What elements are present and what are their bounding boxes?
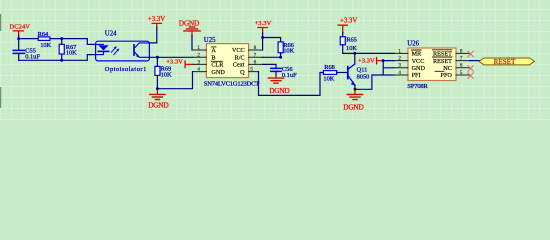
no-connect X pin6	[468, 66, 474, 72]
ground DGND above U25 pin1	[179, 18, 200, 36]
U26 chip body	[407, 40, 456, 89]
svg-text:NC: NC	[443, 65, 452, 72]
svg-text:SP708R: SP708R	[407, 83, 428, 90]
wire U25 Q pin5 to R68	[259, 72, 324, 96]
power port +3.3V above R65	[338, 18, 357, 33]
svg-text:PFO: PFO	[441, 72, 453, 79]
wire R65 to U26 MR pin1	[343, 52, 394, 54]
svg-text:1: 1	[398, 48, 401, 54]
svg-text:R/C: R/C	[235, 55, 245, 62]
svg-text:Q: Q	[240, 69, 245, 76]
svg-text:8: 8	[254, 45, 257, 51]
resistor R69	[155, 57, 172, 88]
LED emission arrows	[111, 46, 119, 54]
svg-text:MR: MR	[412, 51, 423, 58]
svg-text:5: 5	[460, 70, 463, 76]
ground DGND below C56	[268, 76, 290, 95]
resistor R67	[59, 39, 77, 61]
U25 chip body	[204, 37, 259, 87]
svg-text:10K: 10K	[283, 48, 294, 55]
svg-text:U25: U25	[204, 37, 216, 44]
U25 pin numbers	[197, 45, 256, 73]
U26 pin stubs left	[394, 53, 408, 75]
svg-text:GND: GND	[211, 69, 225, 76]
svg-text:10K: 10K	[346, 45, 357, 52]
svg-text:DGND: DGND	[179, 18, 200, 27]
svg-text:8050: 8050	[357, 73, 370, 80]
svg-text:10K: 10K	[66, 50, 77, 57]
resistor R64	[38, 31, 52, 49]
LED inside U24	[96, 44, 109, 54]
svg-text:6: 6	[460, 63, 463, 69]
svg-text:6: 6	[254, 59, 257, 65]
svg-text:PFI: PFI	[412, 72, 421, 79]
svg-text:DGND: DGND	[343, 102, 364, 111]
svg-text:R64: R64	[38, 31, 49, 38]
svg-text:+3.3V: +3.3V	[166, 58, 183, 65]
power port +3.3V at U25 VCC	[255, 20, 272, 33]
op-amp U24 optoisolator box	[96, 30, 150, 72]
svg-text:RESET: RESET	[433, 58, 452, 65]
resistor R65	[340, 37, 357, 54]
wire DC24V stem to node	[18, 36, 20, 39]
power port +3.3V opto collector	[148, 16, 165, 28]
sheet border fragment left edge	[0, 14, 1, 31]
svg-text:U26: U26	[407, 40, 419, 47]
svg-text:5: 5	[250, 67, 253, 73]
wire +3.3V down to opto collector	[149, 28, 156, 43]
svg-text:R68: R68	[324, 64, 335, 71]
svg-text:7: 7	[254, 52, 257, 58]
transistor Q2 Q11	[348, 64, 370, 86]
node junction pin7/R66	[279, 56, 282, 59]
background grid	[0, 0, 550, 121]
power port +3.3V at U26 VCC	[358, 58, 383, 65]
node junction VCC rail	[261, 36, 264, 39]
node junction collector riser	[353, 52, 356, 55]
svg-text:7: 7	[460, 56, 463, 62]
wire U25 Cext pin6 to C56	[263, 64, 276, 68]
power port DC24V	[10, 24, 31, 36]
U25 pin stubs left	[193, 50, 207, 72]
svg-text:4: 4	[398, 70, 401, 76]
node junction emitter/GND	[354, 88, 357, 91]
node junction R69/GND pin4	[156, 87, 159, 90]
svg-text:2: 2	[197, 52, 200, 58]
ground DGND below Q11	[343, 89, 364, 111]
node junction emitter/R69	[156, 56, 159, 59]
wire bottom rail C55 to R67 to opto cathode	[19, 55, 96, 61]
svg-text:VCC: VCC	[412, 58, 425, 65]
wire U25 R/C pin7 to R66 bottom	[263, 56, 281, 58]
wire +3.3V to R65	[342, 33, 344, 37]
wire U25 GND pin4 to DGND node	[157, 72, 192, 89]
svg-text:3: 3	[398, 63, 401, 69]
wire collector riser	[354, 53, 356, 64]
U26 pin numbers	[398, 48, 462, 76]
wire U26 pins 2-3-4 tie and down to ground rail	[355, 61, 394, 90]
wire R68 to Q11 base	[337, 72, 348, 74]
svg-text:DC24V: DC24V	[10, 24, 31, 31]
capacitor C55	[13, 39, 40, 61]
wire VCC rail	[263, 33, 281, 50]
node junction U26 VCC	[382, 59, 385, 62]
svg-text:10K: 10K	[40, 42, 51, 49]
wire emitter down to ground node	[354, 85, 356, 90]
svg-text:DGND: DGND	[148, 101, 169, 110]
wire opto emitter to U25 pin B	[149, 56, 193, 58]
svg-text:SN74LVC1G123DCT: SN74LVC1G123DCT	[204, 81, 259, 88]
port RESET	[479, 58, 534, 66]
U25 pin name overlines A and CLR	[211, 47, 222, 61]
svg-text:+3.3V: +3.3V	[148, 16, 165, 23]
svg-text:4: 4	[197, 67, 200, 73]
U25 pin stubs right	[249, 50, 263, 72]
svg-text:3: 3	[197, 59, 200, 65]
svg-text:Cext: Cext	[233, 62, 245, 69]
svg-text:0.1uF: 0.1uF	[25, 54, 40, 61]
power port +3.3V at U25 pin3 CLR	[166, 58, 193, 67]
svg-text:A: A	[211, 47, 216, 54]
no-connect X pin8	[468, 51, 474, 78]
svg-text:VCC: VCC	[232, 47, 245, 54]
svg-text:+3.3V: +3.3V	[255, 20, 272, 27]
svg-text:CLR: CLR	[211, 62, 224, 69]
svg-text:1: 1	[197, 45, 200, 51]
no-connect X pin5	[468, 73, 474, 79]
U25 pin names	[211, 47, 245, 76]
svg-text:+3.3V: +3.3V	[340, 18, 357, 25]
svg-text:R65: R65	[346, 37, 357, 44]
resistor R68	[323, 64, 336, 82]
phototransistor inside U24	[134, 43, 149, 58]
resistor R66	[278, 42, 294, 58]
svg-text:10K: 10K	[161, 71, 172, 78]
svg-text:Optoisolator1: Optoisolator1	[105, 66, 147, 73]
svg-text:10K: 10K	[323, 76, 334, 83]
svg-text:8: 8	[460, 48, 463, 54]
wire U26 RESET pin7 to port	[470, 60, 480, 62]
wire DGND to U25 pin1	[191, 36, 193, 51]
node junction at DC24V/C55	[17, 37, 20, 40]
U26 overlines MR RESET RESET PFO	[411, 50, 452, 72]
svg-text:U24: U24	[105, 30, 117, 37]
ground DGND below R69	[148, 89, 169, 110]
svg-text:RESET: RESET	[494, 59, 516, 66]
svg-text:DGND: DGND	[269, 86, 290, 95]
wire top rail to R64 and R67 then jog into opto anode	[19, 39, 96, 45]
svg-text:2: 2	[398, 56, 401, 62]
U26 pin stubs right	[456, 53, 470, 75]
svg-text:+3.3V: +3.3V	[358, 58, 375, 65]
capacitor C56	[271, 66, 297, 79]
U26 pin names	[412, 51, 453, 80]
svg-text:B: B	[211, 55, 215, 62]
node junction top of R67	[60, 37, 63, 40]
node junction bottom of R67	[60, 59, 63, 62]
svg-text:GND: GND	[412, 65, 426, 72]
